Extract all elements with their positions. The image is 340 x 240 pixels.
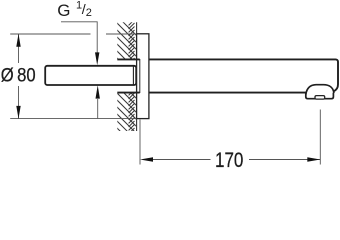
dia 80 arrowhead down — [16, 106, 20, 119]
svg-text:G: G — [57, 1, 70, 20]
lower leader stem — [97, 99, 99, 118]
wall flange / escutcheon (dia 80) — [137, 34, 149, 119]
dia 80 dimension line — [18, 34, 20, 119]
170 arrowhead right — [307, 157, 320, 162]
dia 80 top extension line — [10, 33, 136, 35]
tail pipe thread end line — [132, 66, 134, 85]
leader arrowhead (down, at pipe top) — [95, 52, 99, 65]
wall section hatch (herringbone) — [98, 0, 140, 172]
threaded tail pipe (G 1/2 connection) — [45, 66, 136, 85]
dia 80 bottom extension line — [10, 118, 136, 120]
wall face line — [136, 22, 138, 131]
leader line from G 1/2 label — [61, 22, 97, 53]
dia 80 arrowhead up — [16, 34, 20, 47]
spout body cylinder — [117, 59, 338, 92]
outlet boss dome — [306, 85, 334, 95]
170 dimension line — [153, 159, 320, 161]
aerator slot — [315, 96, 325, 100]
flange collar edge — [139, 59, 141, 93]
lower leader arrowhead (up, at pipe bottom) — [96, 85, 100, 98]
170 arrowhead left — [140, 157, 153, 162]
cylinder stubs at flange — [137, 59, 140, 92]
svg-text:170: 170 — [215, 148, 243, 168]
outlet housing base plate — [306, 93, 334, 99]
170 extension lines (wall face and outlet axis) — [140, 110, 320, 165]
svg-text:2: 2 — [86, 7, 92, 19]
svg-text:Ø 80: Ø 80 — [1, 65, 36, 87]
